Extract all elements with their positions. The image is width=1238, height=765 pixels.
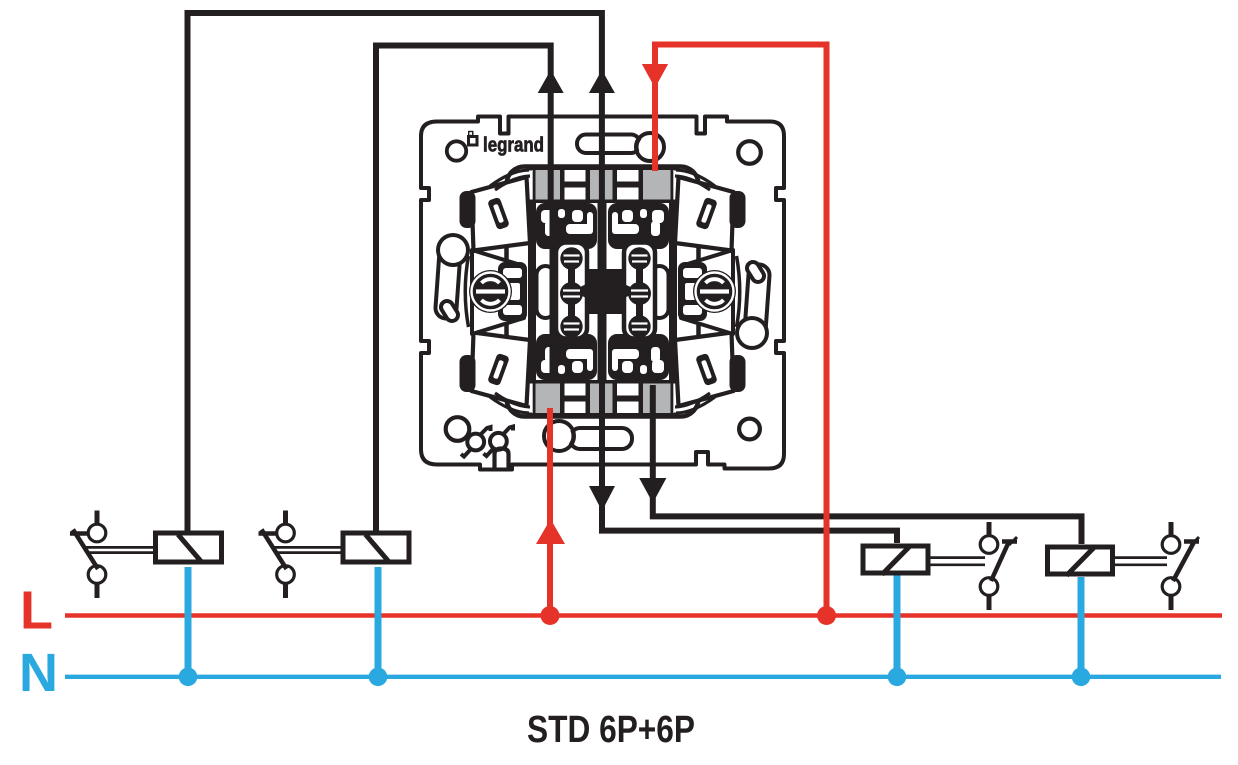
svg-text:L: L (20, 581, 53, 641)
svg-text:N: N (19, 643, 58, 703)
svg-text:legrand: legrand (483, 135, 544, 157)
svg-text:STD 6P+6P: STD 6P+6P (527, 709, 695, 751)
